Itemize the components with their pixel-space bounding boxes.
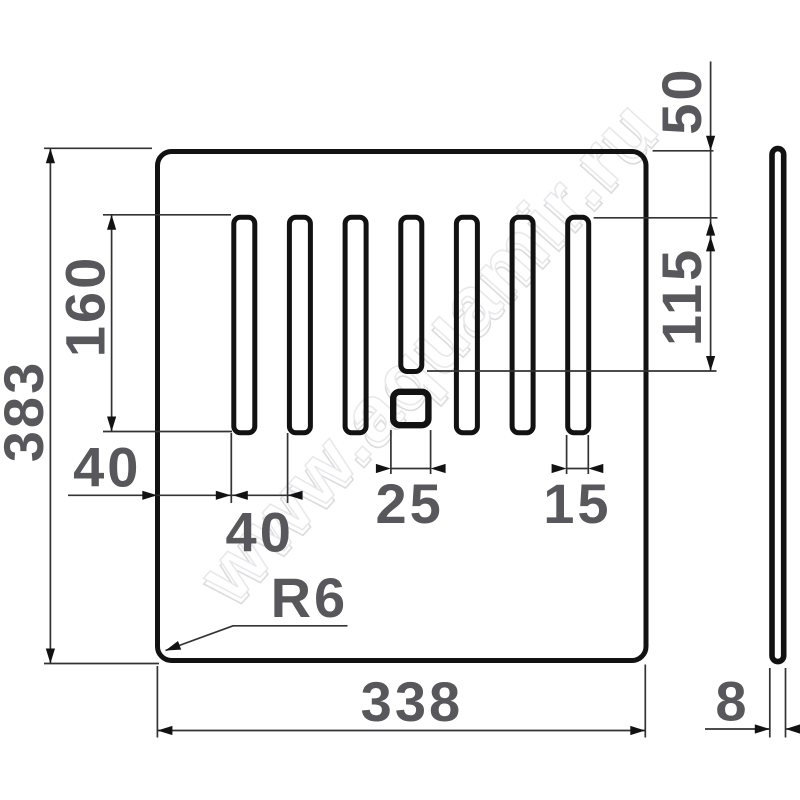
dim 25 extension left <box>390 430 392 474</box>
dim 8 extension right <box>785 668 787 738</box>
dim 160 arrow up <box>107 215 116 230</box>
dim 338 extension left <box>156 666 158 738</box>
dim 15 arrow left <box>552 464 567 473</box>
slot 4 short <box>401 217 422 371</box>
side view bar <box>772 149 784 662</box>
dim 338 arrow left <box>157 726 172 735</box>
dim 383 extension top <box>44 147 152 149</box>
R6 leader line <box>166 626 348 651</box>
square hole <box>393 392 428 425</box>
svg-text:R6: R6 <box>271 566 349 629</box>
svg-text:8: 8 <box>715 670 749 733</box>
slot 7 <box>568 217 589 433</box>
dim 50 arrow down <box>706 136 715 151</box>
dim 40 extension at slot2 <box>287 433 289 503</box>
plate outline <box>158 152 647 661</box>
dim 115 arrow down <box>706 356 715 371</box>
watermark www.aquamir.ru <box>178 81 679 623</box>
dim 40 arrow at slot2 <box>288 491 303 500</box>
dim 40 extension at slot1 <box>230 433 232 503</box>
dim 383 arrow down <box>46 649 55 664</box>
dim 338 line <box>157 730 645 732</box>
R6 leader arrow <box>166 641 182 651</box>
dim 115 arrow up <box>706 236 715 251</box>
dim 25 extension right <box>430 430 432 474</box>
dim 15 shaft <box>567 468 589 470</box>
dim 50 extension plate top <box>653 150 714 152</box>
svg-text:25: 25 <box>375 472 443 535</box>
dim 8 right shaft <box>786 728 800 730</box>
dim 40 shaft <box>68 494 302 496</box>
dim 40 arrow left of second span <box>233 491 248 500</box>
dim 8 extension left <box>769 668 771 738</box>
dim 160 extension top <box>103 214 231 216</box>
svg-text:40: 40 <box>226 501 294 564</box>
dim 160 extension bottom <box>103 431 232 433</box>
svg-text:383: 383 <box>0 360 55 462</box>
dim 40 arrow right of first span <box>216 491 231 500</box>
dim 40 arrow at plate edge <box>142 491 157 500</box>
dim 25 arrow right <box>431 464 446 473</box>
svg-text:40: 40 <box>73 436 141 499</box>
slot 2 <box>289 217 310 433</box>
svg-text:160: 160 <box>54 255 117 357</box>
dim 25 arrow left <box>376 464 391 473</box>
dim 383 line <box>49 148 51 663</box>
dim 338 arrow right <box>630 726 645 735</box>
dim 15 extension right <box>587 435 589 474</box>
slot 5 <box>456 217 477 433</box>
dim 15 extension left <box>566 435 568 474</box>
slot 3 <box>345 217 366 433</box>
dim 50 arrow up below slot line <box>706 221 715 236</box>
dim 8 arrow left <box>755 724 770 733</box>
svg-text:15: 15 <box>543 472 611 535</box>
slot 6 <box>512 217 533 433</box>
dim 50-115 vertical line <box>710 62 712 372</box>
dim 160 arrow down <box>107 417 116 432</box>
dim 25 shaft <box>391 468 431 470</box>
dim 115 extension bottom <box>427 370 717 372</box>
slot 1 <box>234 217 255 433</box>
dim 8 left shaft <box>705 728 770 730</box>
dim 15 arrow right <box>588 464 603 473</box>
dim 383 arrow up <box>46 148 55 163</box>
dim 338 extension right <box>644 665 646 738</box>
dim 160 line <box>111 215 113 432</box>
svg-text:338: 338 <box>361 670 463 733</box>
dim 50-115 extension slot top <box>594 217 718 219</box>
dim 383 extension bottom <box>44 663 159 665</box>
dim 8 arrow right <box>786 724 800 733</box>
svg-text:50: 50 <box>650 66 713 134</box>
svg-text:115: 115 <box>650 247 713 346</box>
